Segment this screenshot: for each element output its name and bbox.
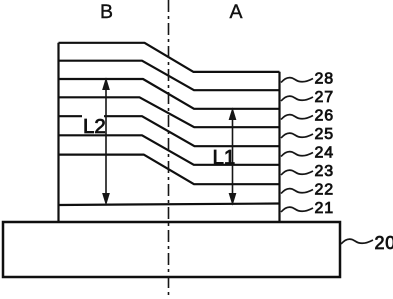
svg-text:28: 28 bbox=[315, 71, 334, 88]
svg-text:B: B bbox=[100, 1, 113, 23]
svg-text:23: 23 bbox=[315, 163, 334, 180]
svg-text:27: 27 bbox=[315, 89, 334, 106]
svg-text:L2: L2 bbox=[83, 115, 106, 138]
svg-text:25: 25 bbox=[315, 126, 334, 143]
svg-text:21: 21 bbox=[315, 200, 334, 217]
svg-text:L1: L1 bbox=[213, 146, 236, 169]
svg-text:26: 26 bbox=[315, 108, 334, 125]
svg-text:24: 24 bbox=[315, 145, 334, 162]
svg-text:22: 22 bbox=[315, 182, 334, 199]
svg-text:A: A bbox=[230, 1, 243, 23]
svg-text:20: 20 bbox=[375, 233, 393, 253]
